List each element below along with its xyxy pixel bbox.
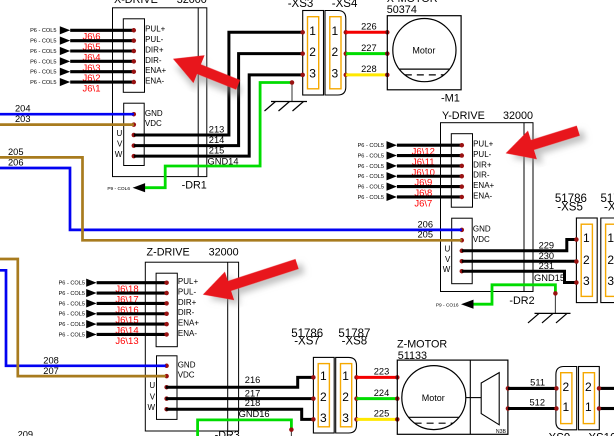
svg-text:-XS8: -XS8 (342, 336, 368, 348)
svg-text:V: V (445, 255, 451, 264)
svg-text:P6 - COL5: P6 - COL5 (59, 312, 85, 318)
svg-text:ENA+: ENA+ (178, 319, 199, 328)
svg-text:1: 1 (309, 24, 316, 38)
svg-text:205: 205 (8, 147, 24, 157)
svg-text:50374: 50374 (387, 4, 417, 16)
svg-text:DIR+: DIR+ (145, 45, 164, 54)
svg-text:W: W (115, 150, 123, 159)
svg-text:1: 1 (585, 400, 592, 414)
svg-text:2: 2 (309, 45, 316, 59)
svg-text:-XS10: -XS10 (585, 433, 614, 436)
svg-text:U: U (117, 129, 123, 138)
svg-text:PUL+: PUL+ (145, 25, 166, 34)
svg-text:V: V (117, 139, 123, 148)
svg-text:P6 - COL5: P6 - COL5 (358, 174, 384, 180)
svg-text:51133: 51133 (398, 350, 427, 362)
svg-text:PUL-: PUL- (178, 287, 197, 296)
svg-text:2: 2 (583, 253, 590, 267)
svg-text:1: 1 (342, 369, 349, 383)
svg-text:2: 2 (332, 45, 339, 59)
svg-text:Motor: Motor (412, 45, 435, 55)
svg-text:P6 - COL5: P6 - COL5 (30, 39, 56, 45)
svg-text:-DR1: -DR1 (182, 179, 207, 191)
svg-text:3: 3 (583, 274, 590, 288)
svg-text:208: 208 (43, 355, 59, 365)
svg-text:2: 2 (607, 253, 614, 267)
svg-text:203: 203 (15, 114, 31, 124)
svg-text:204: 204 (15, 104, 31, 114)
svg-text:1: 1 (583, 231, 590, 245)
svg-text:ENA+: ENA+ (145, 66, 166, 75)
svg-text:GND15: GND15 (534, 273, 565, 283)
svg-text:3: 3 (320, 411, 327, 425)
svg-text:U: U (149, 381, 155, 390)
svg-text:GND: GND (145, 109, 163, 118)
svg-text:-XS4: -XS4 (332, 0, 358, 10)
svg-text:228: 228 (361, 64, 377, 74)
svg-text:206: 206 (417, 219, 433, 229)
svg-text:GND16: GND16 (239, 409, 270, 419)
svg-text:P6 - COL5: P6 - COL5 (59, 281, 85, 287)
svg-text:-XS9: -XS9 (545, 433, 571, 436)
svg-text:227: 227 (361, 43, 377, 53)
svg-text:U: U (445, 245, 451, 254)
svg-text:512: 512 (529, 398, 545, 408)
svg-text:GND: GND (178, 360, 196, 369)
svg-text:-M1: -M1 (441, 92, 460, 104)
svg-text:32000: 32000 (503, 110, 533, 122)
svg-text:Y-DRIVE: Y-DRIVE (442, 110, 485, 122)
svg-text:P6 - COL5: P6 - COL5 (59, 291, 85, 297)
svg-text:3: 3 (309, 67, 316, 81)
svg-text:-XS6: -XS6 (604, 202, 614, 214)
svg-text:J6\13: J6\13 (115, 336, 138, 347)
svg-text:P6 - COL5: P6 - COL5 (358, 143, 384, 149)
svg-text:-XS5: -XS5 (557, 202, 583, 214)
svg-text:DIR+: DIR+ (473, 160, 492, 169)
svg-text:P6 - COL5: P6 - COL5 (59, 332, 85, 338)
svg-text:P9 - COL6: P9 - COL6 (107, 186, 130, 192)
svg-text:218: 218 (245, 398, 261, 408)
svg-text:2: 2 (585, 380, 592, 394)
svg-text:P6 - COL5: P6 - COL5 (59, 322, 85, 328)
svg-text:32000: 32000 (177, 0, 207, 6)
svg-text:206: 206 (8, 158, 24, 168)
svg-text:511: 511 (530, 378, 545, 388)
svg-text:216: 216 (245, 375, 261, 385)
svg-text:VDC: VDC (473, 235, 490, 244)
svg-text:2: 2 (342, 390, 349, 404)
svg-text:ENA-: ENA- (178, 329, 197, 338)
svg-text:3: 3 (332, 67, 339, 81)
svg-text:X-DRIVE: X-DRIVE (114, 0, 158, 6)
svg-text:231: 231 (539, 261, 555, 271)
svg-text:ENA-: ENA- (145, 76, 164, 85)
svg-text:230: 230 (539, 251, 555, 261)
svg-text:207: 207 (43, 366, 59, 376)
svg-text:VDC: VDC (178, 371, 195, 380)
svg-text:PUL+: PUL+ (473, 140, 494, 149)
svg-text:V: V (150, 392, 156, 401)
svg-text:DIR-: DIR- (178, 308, 195, 317)
svg-text:205: 205 (417, 230, 433, 240)
svg-text:J6\1: J6\1 (83, 83, 101, 94)
svg-text:209: 209 (18, 429, 34, 436)
svg-text:223: 223 (374, 367, 390, 377)
svg-text:PUL-: PUL- (473, 150, 492, 159)
svg-text:-DR3: -DR3 (215, 430, 240, 436)
svg-text:229: 229 (539, 240, 555, 250)
svg-text:-XS7: -XS7 (294, 336, 320, 348)
svg-text:2: 2 (562, 380, 569, 394)
svg-text:DIR+: DIR+ (178, 298, 197, 307)
svg-text:P6 - COL5: P6 - COL5 (30, 28, 56, 34)
svg-text:N3B: N3B (496, 429, 507, 435)
svg-text:Motor: Motor (422, 393, 445, 403)
svg-text:1: 1 (320, 369, 327, 383)
svg-text:213: 213 (209, 125, 225, 135)
svg-text:ENA-: ENA- (473, 191, 492, 200)
svg-text:DIR-: DIR- (473, 171, 490, 180)
svg-text:3: 3 (607, 274, 614, 288)
svg-text:ENA+: ENA+ (473, 181, 494, 190)
svg-text:PUL-: PUL- (145, 35, 164, 44)
svg-text:Z-MOTOR: Z-MOTOR (397, 338, 447, 350)
svg-text:P6 - COL5: P6 - COL5 (59, 301, 85, 307)
svg-text:P6 - COL5: P6 - COL5 (358, 185, 384, 191)
svg-text:VDC: VDC (145, 119, 162, 128)
svg-text:214: 214 (209, 135, 225, 145)
svg-text:217: 217 (245, 388, 261, 398)
svg-text:225: 225 (374, 409, 390, 419)
svg-text:J6\7: J6\7 (414, 198, 432, 209)
svg-text:W: W (443, 265, 451, 274)
svg-text:P9 - CO16: P9 - CO16 (436, 302, 459, 308)
svg-text:P6 - COL5: P6 - COL5 (30, 49, 56, 55)
svg-text:P6 - COL5: P6 - COL5 (30, 80, 56, 86)
svg-text:P6 - COL5: P6 - COL5 (30, 59, 56, 65)
svg-text:P6 - COL5: P6 - COL5 (358, 164, 384, 170)
svg-text:1: 1 (607, 231, 614, 245)
svg-text:215: 215 (209, 146, 225, 156)
svg-text:GND: GND (473, 225, 491, 234)
svg-text:PUL+: PUL+ (178, 277, 199, 286)
svg-text:32000: 32000 (209, 246, 239, 258)
svg-text:2: 2 (320, 390, 327, 404)
svg-text:1: 1 (562, 400, 569, 414)
svg-text:W: W (148, 403, 156, 412)
svg-text:-XS3: -XS3 (288, 0, 314, 10)
svg-text:Z-DRIVE: Z-DRIVE (147, 246, 190, 258)
svg-text:226: 226 (361, 22, 377, 32)
svg-text:224: 224 (374, 388, 390, 398)
svg-text:P6 - COL5: P6 - COL5 (30, 70, 56, 76)
svg-text:DIR-: DIR- (145, 56, 162, 65)
svg-text:3: 3 (342, 411, 349, 425)
svg-text:P6 - COL5: P6 - COL5 (358, 153, 384, 159)
svg-text:1: 1 (332, 24, 339, 38)
svg-text:-DR2: -DR2 (509, 295, 534, 307)
svg-text:P6 - COL5: P6 - COL5 (358, 195, 384, 201)
